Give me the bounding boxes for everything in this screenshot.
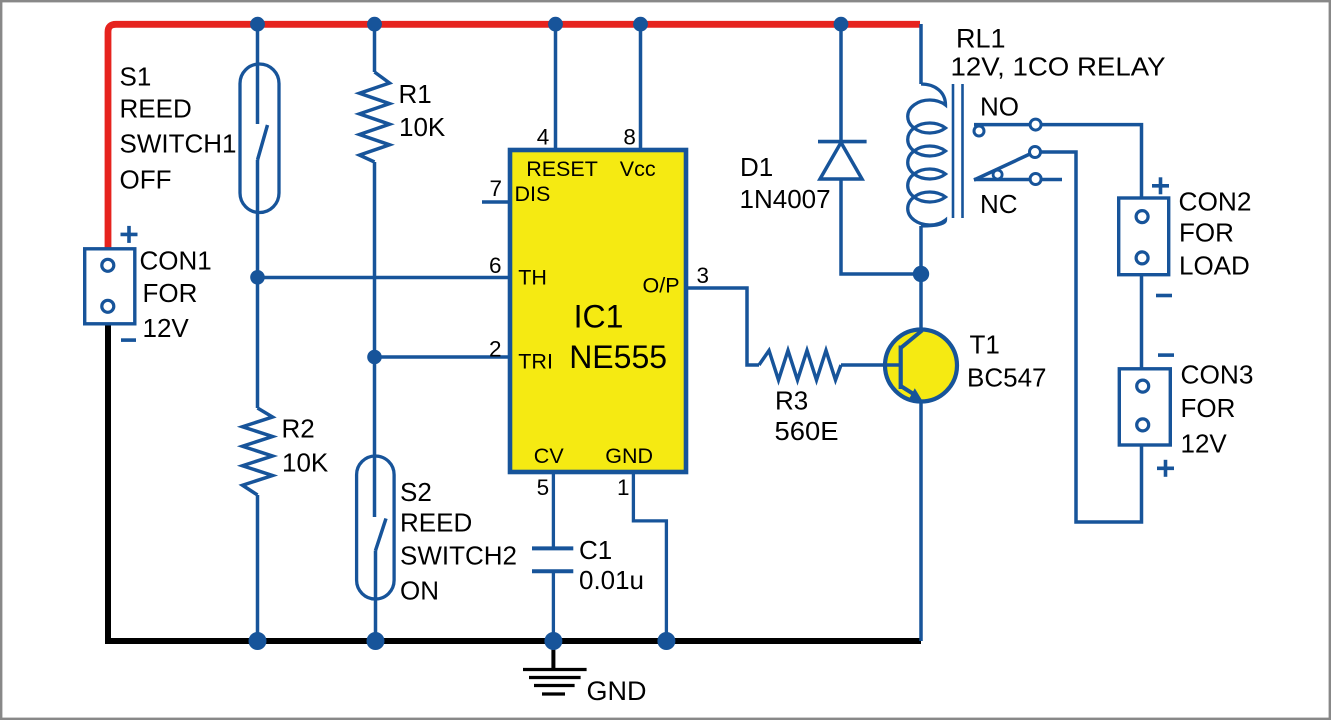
wire: emitter to ground bus (919, 399, 923, 641)
svg-text:CON2: CON2 (1179, 187, 1252, 217)
reed switch S2 capsule (357, 456, 395, 599)
wire: IC pin 1 GND to ground bus (633, 472, 666, 641)
svg-text:RL1: RL1 (956, 23, 1006, 53)
svg-text:12V: 12V (143, 313, 190, 343)
junction TRI node (367, 350, 382, 365)
svg-text:RESET: RESET (526, 157, 598, 181)
IC1 NE555 body (510, 150, 686, 472)
svg-text:2: 2 (489, 337, 502, 362)
wire: IC pin 5 CV to C1 (552, 472, 555, 548)
svg-text:NO: NO (980, 91, 1019, 121)
CON2 minus sign (1156, 294, 1172, 298)
svg-text:S2: S2 (400, 477, 432, 507)
junction S2/ground bus (367, 632, 385, 650)
wire: S2 bottom to ground bus (374, 551, 378, 642)
wire: O/P pin 3 to R3 (686, 288, 759, 365)
svg-text:0.01u: 0.01u (579, 565, 644, 595)
svg-text:8: 8 (623, 124, 636, 149)
transistor T1 base bar (899, 346, 903, 390)
svg-text:10K: 10K (399, 112, 446, 142)
relay NO line contact circle (1030, 119, 1041, 130)
wire: CON1 negative black wire and ground bus (108, 323, 921, 641)
junction pin8/rail (633, 17, 648, 32)
svg-text:CON1: CON1 (140, 245, 212, 275)
junction pin4/rail (548, 17, 563, 32)
wire: CON2 bottom to CON3 top (1140, 276, 1144, 369)
svg-text:GND: GND (605, 444, 653, 468)
ground symbol (523, 641, 587, 694)
svg-text:NC: NC (980, 189, 1018, 219)
svg-text:DIS: DIS (515, 182, 551, 206)
junction S1/rail (250, 17, 265, 32)
CON3 minus sign (1158, 353, 1174, 357)
resistor R2 zigzag (243, 408, 273, 495)
transistor T1 collector stroke (901, 331, 922, 349)
wire: R3 to transistor base (841, 363, 901, 367)
relay NO stationary contact circle (974, 126, 984, 136)
relay RL1 coil (908, 84, 946, 226)
wire: relay coil bottom to node (919, 226, 923, 274)
wire: D1 cathode to rail (839, 24, 843, 142)
svg-text:1: 1 (617, 475, 630, 500)
svg-text:OFF: OFF (120, 165, 172, 195)
svg-text:S1: S1 (120, 62, 152, 92)
junction R2/ground bus (249, 632, 267, 650)
svg-text:3: 3 (697, 263, 710, 288)
wire: collector from relay node (919, 274, 923, 331)
wire: R1 bottom through TRI node to S2 top contact (373, 162, 377, 517)
svg-text:7: 7 (490, 176, 503, 201)
connector CON2 box (1119, 198, 1169, 275)
wire: NC pole line with contact (974, 178, 1062, 182)
wire: pin 8 Vcc to rail (639, 24, 643, 150)
reed switch S1 capsule (240, 64, 279, 213)
svg-text:BC547: BC547 (967, 363, 1047, 393)
junction D1/coil/collector (913, 266, 929, 282)
svg-text:D1: D1 (740, 152, 773, 182)
wire: NO contact line to CON2 (974, 125, 1142, 198)
svg-text:FOR: FOR (1179, 217, 1234, 247)
wire: TRI line to IC pin 2 (375, 355, 511, 359)
resistor R3 zigzag (759, 351, 841, 381)
svg-text:12V, 1CO RELAY: 12V, 1CO RELAY (951, 52, 1166, 82)
svg-text:560E: 560E (775, 416, 839, 446)
CON1 plus sign (121, 226, 138, 243)
svg-text:R3: R3 (775, 385, 808, 415)
svg-text:5: 5 (537, 475, 550, 500)
diode D1 triangle (820, 143, 862, 180)
svg-text:O/P: O/P (643, 274, 680, 298)
CON3 plus sign (1157, 460, 1174, 477)
svg-text:R2: R2 (282, 413, 315, 443)
svg-text:TRI: TRI (518, 350, 553, 374)
svg-text:REED: REED (400, 507, 472, 537)
relay RL1 core lines (953, 84, 963, 218)
junction R1/rail (367, 17, 382, 32)
svg-text:12V: 12V (1181, 429, 1228, 459)
capacitor C1 plates (532, 548, 573, 571)
svg-text:TH: TH (518, 266, 547, 290)
svg-text:C1: C1 (579, 535, 612, 565)
transistor T1 emitter arrow (909, 388, 923, 401)
svg-text:SWITCH1: SWITCH1 (120, 129, 237, 159)
junction pin1/ground bus (657, 632, 675, 650)
svg-text:ON: ON (400, 576, 439, 606)
wire: relay coil top from rail (919, 24, 923, 84)
CON2 plus sign (1152, 177, 1169, 194)
junction C1/ground bus (544, 632, 562, 650)
svg-text:IC1: IC1 (574, 299, 624, 335)
svg-text:LOAD: LOAD (1179, 251, 1250, 281)
diode D1 cathode bar (818, 140, 867, 144)
svg-text:6: 6 (489, 253, 502, 278)
wire: S2 blade (closed) (376, 519, 387, 551)
wire: NC contact to CON3 bottom (1040, 152, 1142, 522)
wire: C1 to ground bus (552, 571, 555, 641)
svg-text:FOR: FOR (143, 278, 198, 308)
connector CON1 box (85, 249, 135, 324)
relay armature pivot circle (993, 170, 1002, 179)
CON1 minus sign (121, 338, 136, 342)
wire: NC armature diagonal (974, 154, 1031, 181)
svg-text:GND: GND (587, 676, 647, 706)
wire: R2 bottom to ground bus (256, 495, 260, 641)
svg-text:Vcc: Vcc (620, 157, 656, 181)
wire: +12V red rail from CON1 up and across top (108, 24, 920, 252)
svg-text:T1: T1 (970, 330, 1000, 360)
wire: pin 4 RESET to rail (554, 24, 558, 150)
svg-text:4: 4 (537, 124, 550, 149)
connector CON3 box (1119, 369, 1170, 445)
svg-text:REED: REED (120, 94, 192, 124)
wire: R1 top from rail (373, 24, 377, 72)
wire: S1 blade (open) (258, 125, 268, 160)
wire: TH line to IC pin 6 (258, 276, 511, 280)
wire: base lead inside transistor (883, 363, 901, 367)
transistor T1 emitter stroke (901, 386, 918, 397)
relay NC pole contact circle (1030, 174, 1041, 185)
wire: pin 7 DIS stub (482, 200, 510, 204)
transistor T1 body (885, 330, 957, 402)
wire: D1 anode down and right to relay node (841, 179, 921, 274)
relay NC armature contact circle (1030, 147, 1041, 158)
svg-text:10K: 10K (282, 448, 329, 478)
junction D1/rail (834, 17, 849, 32)
resistor R1 zigzag (360, 72, 390, 162)
svg-text:1N4007: 1N4007 (740, 184, 831, 214)
wire: S1 bottom to TH node and R2 (256, 160, 260, 408)
svg-text:R1: R1 (399, 79, 432, 109)
svg-text:CV: CV (534, 444, 565, 468)
svg-text:FOR: FOR (1181, 393, 1236, 423)
svg-text:CON3: CON3 (1181, 360, 1254, 390)
wire: S1 top contact from rail (256, 24, 260, 124)
junction TH node (250, 270, 265, 285)
svg-text:SWITCH2: SWITCH2 (400, 541, 517, 571)
svg-text:NE555: NE555 (569, 339, 667, 375)
